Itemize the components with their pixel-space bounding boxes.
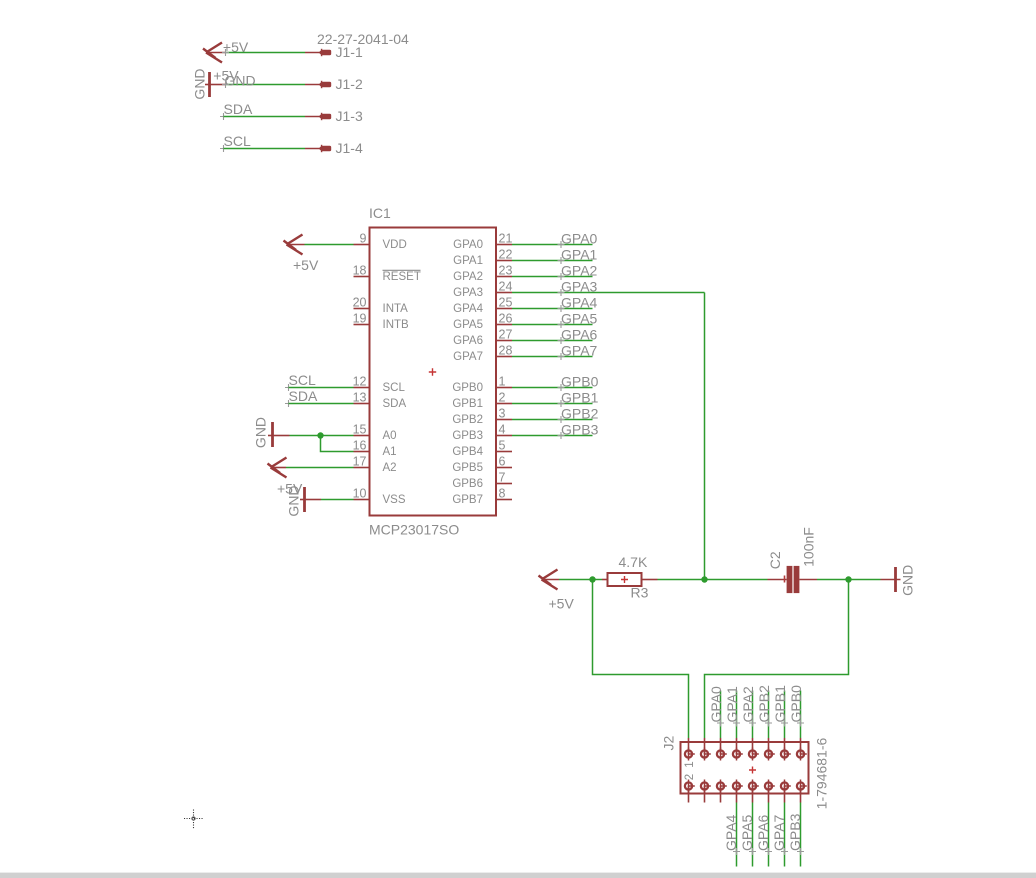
svg-text:13: 13 (353, 391, 367, 405)
wire junction to C2 (705, 579, 768, 581)
svg-text:GPB0: GPB0 (561, 374, 599, 390)
wire net GPB3 from J2 bottom (800, 803, 802, 867)
svg-text:SCL: SCL (383, 382, 406, 394)
connector pin J1-1 (305, 52, 320, 54)
svg-text:GPA5: GPA5 (453, 319, 483, 331)
wire net GPA2 (512, 276, 593, 278)
svg-text:R3: R3 (631, 585, 649, 601)
J2 pad top 3 (720, 738, 722, 754)
svg-text:J1-1: J1-1 (336, 44, 363, 60)
wire R3 to junction (658, 579, 705, 581)
svg-text:18: 18 (353, 264, 367, 278)
J2 pad bottom 6 (768, 786, 770, 803)
svg-text:9: 9 (360, 232, 367, 246)
svg-text:GPA6: GPA6 (561, 327, 598, 343)
J2 pad top 8 (800, 738, 802, 754)
svg-text:1: 1 (499, 375, 506, 389)
wire net GPA0 to J2 (720, 691, 722, 739)
wire net GPA1 (512, 260, 593, 262)
svg-text:SCL: SCL (289, 372, 316, 388)
wire +5V branch to J2 pin1 (593, 580, 689, 739)
IC1 pin 15 A0 stub (354, 435, 370, 437)
IC1 pin 9 VDD stub (354, 244, 370, 246)
J2 pad top 2 (704, 738, 706, 754)
svg-text:2: 2 (499, 391, 506, 405)
supply +5V arrow at IC pin 9 (284, 235, 303, 255)
connector J2 body (681, 742, 809, 794)
svg-text:GPA5: GPA5 (739, 814, 755, 851)
svg-text:SDA: SDA (383, 398, 407, 410)
svg-text:GND: GND (253, 417, 269, 448)
svg-text:GPA2: GPA2 (561, 263, 598, 279)
wire net GPA5 (512, 324, 593, 326)
svg-text:GPA1: GPA1 (561, 247, 598, 263)
svg-text:GPA3: GPA3 (561, 279, 598, 295)
svg-text:22: 22 (499, 248, 513, 262)
IC1 pin 28 GPA7 stub (496, 356, 512, 358)
wire net GPA4 (512, 308, 593, 310)
svg-text:19: 19 (353, 312, 367, 326)
wire SDA to J1-3 (224, 116, 306, 118)
svg-text:GND: GND (286, 485, 302, 516)
IC1 pin 1 GPB0 stub (496, 387, 512, 389)
svg-text:GPA0: GPA0 (561, 231, 598, 247)
wire junction to GND (849, 579, 881, 581)
wire SCL (289, 387, 354, 389)
IC1 pin 7 GPB6 stub (496, 483, 512, 485)
svg-text:GPB0: GPB0 (452, 382, 483, 394)
wire net GPB0 (512, 387, 593, 389)
svg-text:1: 1 (684, 761, 696, 767)
svg-text:GND: GND (900, 565, 916, 596)
supply +5V arrow (J1-1 net) (203, 43, 222, 63)
svg-text:GPA1: GPA1 (453, 255, 483, 267)
wire net GPB0 to J2 (800, 691, 802, 739)
svg-text:GPB3: GPB3 (452, 430, 483, 442)
svg-text:GPA0: GPA0 (708, 686, 724, 723)
svg-text:10: 10 (353, 487, 367, 501)
IC U1 MCP23017SO body (370, 228, 497, 516)
svg-text:GPB4: GPB4 (452, 446, 483, 458)
svg-text:SDA: SDA (289, 388, 318, 404)
svg-text:+5V: +5V (549, 596, 575, 612)
svg-text:100nF: 100nF (800, 527, 816, 567)
J2 pad top 1 (688, 738, 690, 754)
svg-text:GPB1: GPB1 (561, 390, 599, 406)
svg-text:GPB1: GPB1 (772, 685, 788, 723)
J2 pad top 7 (784, 738, 786, 754)
supply +5V arrow (R3 net) (539, 570, 558, 590)
IC1 pin 8 GPB7 stub (496, 499, 512, 501)
svg-text:20: 20 (353, 296, 367, 310)
supply +5V arrow at A2 (268, 458, 287, 478)
capacitor C2 lead right (799, 579, 817, 581)
wire A0 to GND (274, 435, 290, 437)
svg-text:IC1: IC1 (369, 205, 391, 221)
svg-text:J2: J2 (661, 735, 677, 750)
IC1 pin 12 SCL stub (354, 387, 370, 389)
svg-text:8: 8 (499, 487, 506, 501)
svg-text:GPB6: GPB6 (452, 478, 483, 490)
svg-text:VDD: VDD (383, 239, 407, 251)
svg-text:MCP23017SO: MCP23017SO (369, 522, 459, 538)
wire net GPB2 to J2 (768, 691, 770, 739)
IC1 pin 21 GPA0 stub (496, 244, 512, 246)
svg-text:GPA0: GPA0 (453, 239, 483, 251)
connector pin J1-2 (305, 84, 320, 86)
svg-text:GPB2: GPB2 (452, 414, 483, 426)
svg-text:GPB5: GPB5 (452, 462, 483, 474)
junction GPA3 net (701, 576, 707, 582)
svg-text:5: 5 (499, 439, 506, 453)
IC1 pin 22 GPA1 stub (496, 260, 512, 262)
svg-text:25: 25 (499, 296, 513, 310)
IC1 pin 2 GPB1 stub (496, 403, 512, 405)
RESET overline (383, 269, 421, 271)
J2 pad bottom 4 (736, 786, 738, 803)
svg-text:27: 27 (499, 328, 513, 342)
J2 pad top 4 (736, 738, 738, 754)
IC1 pin 16 A1 stub (354, 451, 370, 453)
IC1 pin 19 INTB stub (354, 324, 370, 326)
svg-text:J1-2: J1-2 (336, 76, 363, 92)
svg-text:GPB3: GPB3 (787, 813, 803, 851)
wire net GPA6 from J2 bottom (768, 803, 770, 867)
wire net GPB3 (512, 435, 593, 437)
svg-text:26: 26 (499, 312, 513, 326)
svg-text:GPA2: GPA2 (740, 686, 756, 723)
svg-text:A1: A1 (383, 446, 397, 458)
svg-text:GPA4: GPA4 (561, 295, 598, 311)
svg-text:17: 17 (353, 455, 367, 469)
svg-text:12: 12 (353, 375, 367, 389)
svg-text:SDA: SDA (224, 101, 253, 117)
IC1 pin 27 GPA6 stub (496, 340, 512, 342)
svg-text:GPA4: GPA4 (723, 814, 739, 851)
svg-text:GPA4: GPA4 (453, 303, 483, 315)
IC1 pin 6 GPB5 stub (496, 467, 512, 469)
IC1 pin 26 GPA5 stub (496, 324, 512, 326)
wire net GPA7 from J2 bottom (784, 803, 786, 867)
IC1 pin 18 RESET stub (354, 276, 370, 278)
svg-text:GPB1: GPB1 (452, 398, 483, 410)
svg-text:SCL: SCL (224, 133, 251, 149)
svg-text:GPA6: GPA6 (755, 814, 771, 851)
wire net GPA0 (512, 244, 593, 246)
wire junction down-left branch start (593, 579, 603, 581)
J2 pad bottom 5 (752, 786, 754, 803)
wire net GPA4 from J2 bottom (736, 803, 738, 867)
svg-text:6: 6 (499, 455, 506, 469)
junction C2/GND (845, 576, 851, 582)
wire +5V to R3 (542, 579, 560, 581)
svg-text:A0: A0 (383, 430, 397, 442)
svg-text:GPB2: GPB2 (561, 406, 599, 422)
wire GPA3 long net (512, 292, 705, 294)
svg-text:4: 4 (499, 423, 506, 437)
svg-text:C2: C2 (767, 551, 783, 569)
svg-text:A2: A2 (383, 462, 397, 474)
ground GND symbol (J1-2) (208, 72, 211, 97)
resistor R3 body (608, 573, 642, 586)
svg-text:7: 7 (499, 471, 506, 485)
junction A0/A1 (317, 432, 323, 438)
IC1 pin 3 GPB2 stub (496, 419, 512, 421)
ground GND symbol at A0 (271, 422, 274, 447)
wire GND to J1-2 (211, 84, 226, 86)
ground GND symbol at VSS (303, 487, 306, 512)
J2 pad top 5 (752, 738, 754, 754)
J2 pad top 6 (768, 738, 770, 754)
wire A1 (321, 436, 354, 452)
resistor R3 lead right (642, 579, 658, 581)
wire net GPA5 from J2 bottom (752, 803, 754, 867)
svg-text:GPB2: GPB2 (756, 685, 772, 723)
wire net GPB1 to J2 (784, 691, 786, 739)
svg-text:16: 16 (353, 439, 367, 453)
wire net GPB2 (512, 419, 593, 421)
connector pin J1-3 (305, 116, 320, 118)
wire net GPA6 (512, 340, 593, 342)
IC1 pin 5 GPB4 stub (496, 451, 512, 453)
svg-text:22-27-2041-04: 22-27-2041-04 (317, 31, 409, 47)
IC1 pin 24 GPA3 stub (496, 292, 512, 294)
svg-text:GPA7: GPA7 (771, 814, 787, 851)
svg-text:GND: GND (225, 73, 256, 89)
svg-text:GPA1: GPA1 (724, 686, 740, 723)
svg-text:GPB7: GPB7 (452, 494, 483, 506)
J2 pad bottom 8 (800, 786, 802, 803)
capacitor C2 lead left (768, 579, 787, 581)
wire VDD (287, 244, 305, 246)
IC1 pin 25 GPA4 stub (496, 308, 512, 310)
scrollbar (0, 873, 1036, 878)
IC1 origin cross (429, 368, 436, 375)
connector pin J1-4 (305, 148, 320, 150)
svg-text:28: 28 (499, 344, 513, 358)
wire net GPB1 (512, 403, 593, 405)
svg-text:GPA5: GPA5 (561, 311, 598, 327)
wire SCL to J1-4 (224, 148, 306, 150)
svg-text:4.7K: 4.7K (619, 554, 648, 570)
svg-text:23: 23 (499, 264, 513, 278)
IC1 pin 4 GPB3 stub (496, 435, 512, 437)
svg-text:GPA6: GPA6 (453, 335, 483, 347)
svg-text:+5V: +5V (293, 257, 319, 273)
resistor R3 lead left (602, 579, 608, 581)
wire SDA (289, 403, 354, 405)
J2 pad bottom 2 (704, 786, 706, 803)
svg-text:GPA7: GPA7 (453, 351, 483, 363)
capacitor C2 plates (787, 566, 793, 593)
IC1 pin 13 SDA stub (354, 403, 370, 405)
svg-text:INTA: INTA (383, 303, 409, 315)
wire VSS to GND (306, 499, 322, 501)
svg-text:GPA3: GPA3 (453, 287, 483, 299)
J2 pad bottom 7 (784, 786, 786, 803)
capacitor C2 origin cross (784, 576, 786, 583)
svg-text:GPB3: GPB3 (561, 422, 599, 438)
svg-text:GPA2: GPA2 (453, 271, 483, 283)
J2 pad bottom 3 (720, 786, 722, 803)
wire GPA3 vertical drop (704, 293, 706, 580)
svg-text:RESET: RESET (383, 271, 421, 283)
ground GND symbol (right) (881, 579, 901, 581)
wire C2 to junction (817, 579, 849, 581)
junction +5V/R3 (589, 576, 595, 582)
wire net GPA1 to J2 (736, 691, 738, 739)
svg-text:GPA7: GPA7 (561, 343, 598, 359)
wire net GPA7 (512, 356, 593, 358)
svg-text:GND: GND (192, 68, 208, 99)
svg-text:3: 3 (499, 407, 506, 421)
svg-text:1-794681-6: 1-794681-6 (813, 737, 829, 809)
svg-text:15: 15 (353, 423, 367, 437)
sheet origin cross (184, 810, 203, 829)
J2 origin cross (749, 767, 756, 774)
svg-text:J1-4: J1-4 (336, 140, 363, 156)
svg-text:2: 2 (684, 774, 696, 780)
svg-text:J1-3: J1-3 (336, 108, 363, 124)
svg-text:VSS: VSS (383, 494, 406, 506)
svg-text:INTB: INTB (383, 319, 410, 331)
wire net GPA2 to J2 (752, 691, 754, 739)
IC1 pin 17 A2 stub (354, 467, 370, 469)
wire GND branch to J2 pin3 (705, 580, 849, 739)
svg-text:GPB0: GPB0 (788, 685, 804, 723)
IC1 pin 10 VSS stub (354, 499, 370, 501)
svg-text:21: 21 (499, 232, 513, 246)
svg-text:24: 24 (499, 280, 513, 294)
wire A2 (271, 467, 287, 469)
IC1 pin 23 GPA2 stub (496, 276, 512, 278)
wire +5V to J1-1 (206, 52, 226, 54)
J2 pad bottom 1 (688, 786, 690, 803)
IC1 pin 20 INTA stub (354, 308, 370, 310)
